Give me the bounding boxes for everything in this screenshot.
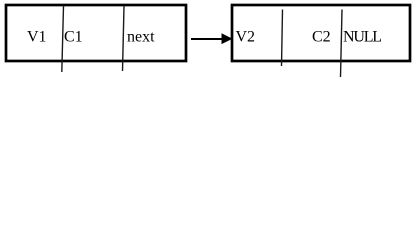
node 2 divider b	[341, 10, 343, 78]
svg-text:C1: C1	[64, 29, 83, 46]
arrowhead of next pointer	[222, 33, 233, 44]
wire: next pointer arrow shaft	[191, 38, 223, 40]
svg-text:C2: C2	[312, 29, 331, 46]
svg-text:NULL: NULL	[343, 29, 381, 46]
node 1 box	[6, 5, 186, 61]
svg-text:next: next	[127, 29, 155, 46]
node 2 box	[232, 5, 410, 61]
svg-text:V1: V1	[27, 29, 47, 46]
node 1 divider b	[123, 6, 125, 71]
node 1 divider a	[62, 6, 64, 72]
node 2 divider a	[282, 10, 283, 67]
svg-text:V2: V2	[236, 29, 256, 46]
